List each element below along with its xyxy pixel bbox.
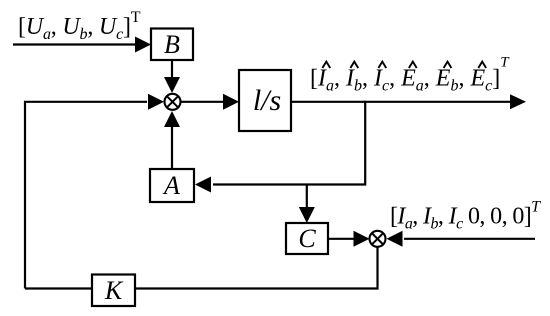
wire branch down from output xyxy=(213,101,365,185)
svg-text:[Ia, Ib, Ic 0, 0, 0]T: [Ia, Ib, Ic 0, 0, 0]T xyxy=(390,199,541,233)
block K xyxy=(92,275,135,307)
hat accent 1 xyxy=(322,62,330,68)
block A xyxy=(150,169,194,202)
block B xyxy=(151,29,193,61)
hat accent 4 xyxy=(409,62,417,68)
output wire xyxy=(291,101,511,103)
wire C to junction 2 xyxy=(328,238,355,240)
hat accent 5 xyxy=(444,62,452,68)
svg-text:C: C xyxy=(298,224,316,253)
svg-text:A: A xyxy=(162,171,180,200)
wire junction 1 to integrator xyxy=(181,101,224,103)
hat accent 2 xyxy=(350,62,358,68)
wire input to B xyxy=(13,43,137,45)
svg-text:[Ua, Ub, Uc]T: [Ua, Ub, Uc]T xyxy=(18,9,141,43)
wire junction 2 down to K xyxy=(135,247,378,288)
summing junction 1 xyxy=(165,94,181,110)
wire branch down to C xyxy=(306,185,308,210)
hat accent 6 xyxy=(478,62,486,68)
wire B to junction 1 xyxy=(171,60,173,80)
block C xyxy=(286,223,328,254)
wire feedback left into junction 1 xyxy=(25,102,147,289)
svg-text:B: B xyxy=(164,30,180,59)
wire right input into junction 2 xyxy=(404,238,535,240)
svg-text:K: K xyxy=(104,276,124,305)
hat accent 3 xyxy=(378,62,386,68)
block 1/s integrator xyxy=(239,70,291,131)
wire K to left corner xyxy=(25,287,92,289)
svg-text:l/s: l/s xyxy=(253,84,281,117)
wire A to junction 1 xyxy=(171,126,173,169)
summing junction 2 xyxy=(370,231,386,247)
